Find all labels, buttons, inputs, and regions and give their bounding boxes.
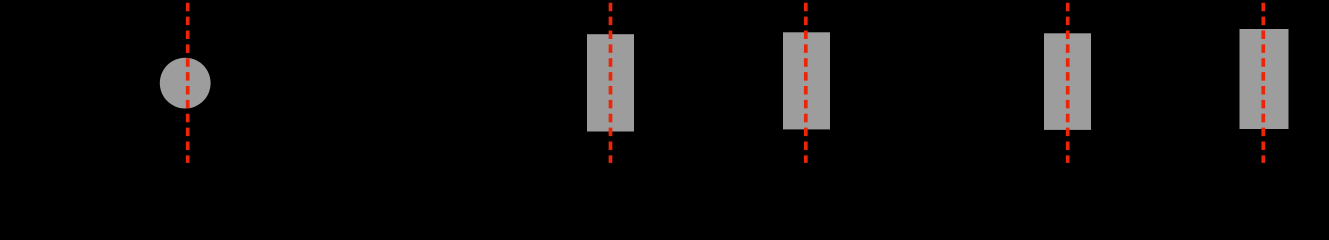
gray rectangle segment 1	[587, 34, 634, 131]
gray rectangle segment 4	[1240, 29, 1289, 129]
red dashed vertical line 3	[804, 3, 808, 163]
gray rectangle segment 2	[783, 32, 830, 129]
gray rectangle segment 3	[1044, 33, 1091, 130]
red dashed vertical line 4	[1066, 3, 1070, 163]
red dashed vertical line 1	[186, 3, 190, 163]
red dashed vertical line 5	[1261, 3, 1265, 163]
gray circle marker	[160, 58, 211, 109]
red dashed vertical line 2	[609, 3, 613, 163]
